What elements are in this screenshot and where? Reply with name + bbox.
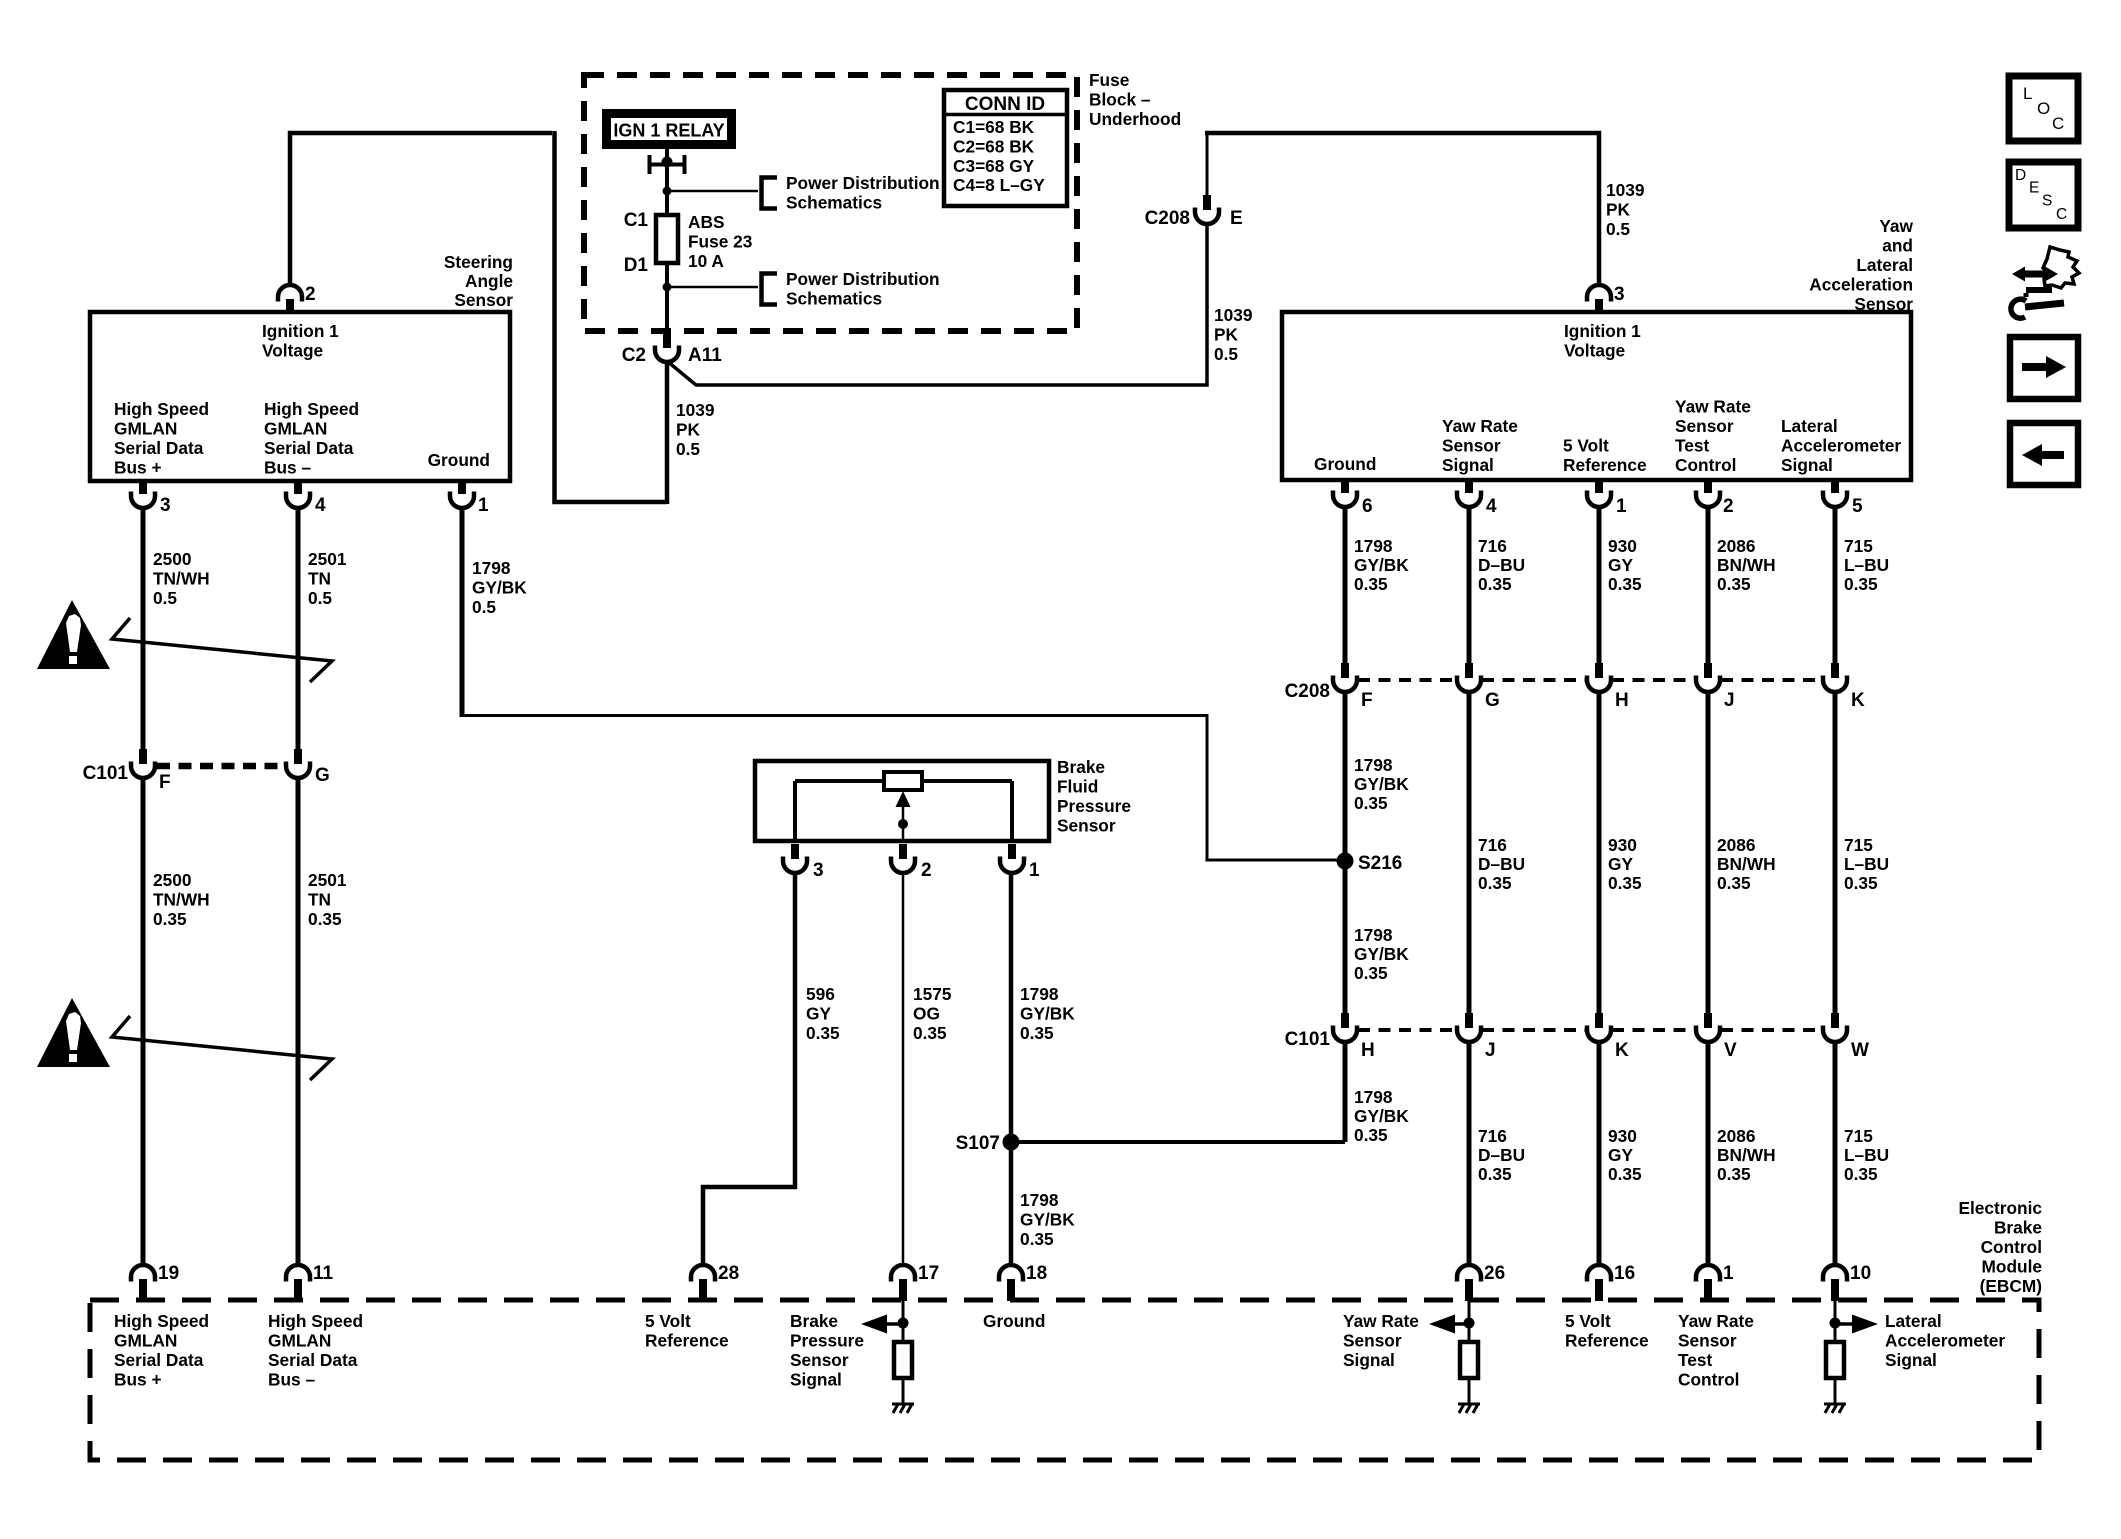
svg-text:5: 5 [1852, 496, 1863, 517]
svg-text:S107: S107 [956, 1133, 1000, 1154]
wire resistor to ground pin 17 [902, 1378, 905, 1404]
warning triangle upper [37, 600, 110, 669]
svg-text:0.35: 0.35 [1478, 1164, 1512, 1184]
svg-text:C101: C101 [83, 763, 129, 784]
svg-text:Control: Control [1981, 1237, 2042, 1257]
svg-text:C101: C101 [1285, 1029, 1331, 1050]
svg-text:Ground: Ground [1314, 454, 1376, 474]
svg-text:PK: PK [676, 420, 701, 440]
svg-text:930: 930 [1608, 1126, 1637, 1146]
steering sensor pin 1 [450, 479, 474, 508]
svg-text:5 Volt: 5 Volt [1563, 436, 1609, 456]
svg-text:C3=68 GY: C3=68 GY [953, 156, 1035, 176]
junction pin 10 internal [1830, 1318, 1841, 1329]
svg-text:TN/WH: TN/WH [153, 569, 210, 589]
svg-text:0.5: 0.5 [308, 588, 332, 608]
svg-text:Pressure: Pressure [790, 1331, 864, 1351]
EBCM internal wire pin 10 [1834, 1301, 1837, 1342]
dashed link C101 H-J [1358, 1028, 1456, 1032]
svg-text:2501: 2501 [308, 870, 347, 890]
svg-text:1798: 1798 [1354, 536, 1393, 556]
svg-text:5 Volt: 5 Volt [645, 1311, 691, 1331]
wire 2086 BN/WH 0.35 upper segment [1706, 507, 1711, 663]
svg-text:1: 1 [1616, 496, 1627, 517]
svg-text:J: J [1724, 690, 1735, 711]
connector C101 pin G [286, 749, 310, 778]
svg-text:2501: 2501 [308, 549, 347, 569]
wire 930 GY 0.35 middle segment [1597, 692, 1602, 1013]
wire branch to power distribution lower [667, 286, 758, 289]
svg-text:2: 2 [1723, 496, 1734, 517]
wire 930 GY 0.35 lower segment [1597, 1042, 1602, 1265]
svg-text:18: 18 [1026, 1263, 1047, 1284]
svg-text:High Speed: High Speed [114, 399, 209, 419]
connector C208 pin G [1457, 663, 1481, 692]
wire 2501 TN lower segment [296, 778, 301, 1265]
svg-text:H: H [1615, 690, 1629, 711]
EBCM pin 28 [691, 1265, 715, 1301]
svg-text:2500: 2500 [153, 549, 191, 569]
svg-text:L–BU: L–BU [1844, 854, 1889, 874]
svg-text:0.35: 0.35 [913, 1023, 947, 1043]
svg-text:930: 930 [1608, 536, 1637, 556]
EBCM pin 17 [891, 1265, 915, 1301]
svg-text:GY/BK: GY/BK [1354, 555, 1409, 575]
connector C101 pin J [1457, 1013, 1481, 1042]
svg-text:3: 3 [813, 860, 824, 881]
wire 930 GY 0.35 upper segment [1597, 507, 1602, 663]
svg-text:Fluid: Fluid [1057, 777, 1098, 797]
svg-text:0.5: 0.5 [1606, 219, 1630, 239]
dashed link C101 K-V [1612, 1028, 1695, 1032]
svg-text:G: G [315, 765, 330, 786]
resistor EBCM pin 17 [894, 1342, 912, 1378]
svg-text:Serial Data: Serial Data [114, 1350, 204, 1370]
svg-text:0.35: 0.35 [1844, 574, 1878, 594]
svg-text:Sensor: Sensor [1343, 1331, 1402, 1351]
svg-text:IGN 1 RELAY: IGN 1 RELAY [613, 121, 724, 141]
wire 1798 GY/BK 0.5 to S216 [460, 716, 1346, 861]
svg-text:E: E [1230, 208, 1243, 229]
svg-text:PK: PK [1214, 325, 1239, 345]
svg-text:C208: C208 [1145, 208, 1190, 229]
svg-text:0.35: 0.35 [1608, 1164, 1642, 1184]
svg-text:GY/BK: GY/BK [1354, 774, 1409, 794]
svg-text:0.35: 0.35 [1717, 1164, 1751, 1184]
svg-text:0.35: 0.35 [806, 1023, 840, 1043]
pressure sensor internal element [795, 772, 1012, 841]
dashed link C208 J-K [1721, 678, 1822, 682]
wire branch to power distribution upper [667, 190, 758, 193]
junction pin 26 internal [1464, 1318, 1475, 1329]
svg-text:0.35: 0.35 [1020, 1229, 1054, 1249]
splice S216 [1337, 853, 1354, 870]
wire relay output vertical [665, 149, 669, 333]
svg-text:596: 596 [806, 984, 835, 1004]
yaw sensor pin 3 [1587, 285, 1611, 314]
icon back arrow box [2010, 423, 2078, 485]
ground EBCM pin 26 [1458, 1404, 1480, 1413]
svg-text:Control: Control [1675, 455, 1736, 475]
svg-text:Schematics: Schematics [786, 193, 882, 213]
wire S107 to C101 H [1011, 1140, 1345, 1144]
svg-text:GMLAN: GMLAN [268, 1331, 331, 1351]
steering angle sensor box [90, 312, 510, 481]
svg-text:Brake: Brake [790, 1311, 838, 1331]
wire 2500 TN/WH lower segment [141, 778, 146, 1265]
svg-text:TN/WH: TN/WH [153, 890, 210, 910]
svg-text:716: 716 [1478, 536, 1507, 556]
svg-text:L–BU: L–BU [1844, 555, 1889, 575]
svg-text:Signal: Signal [1343, 1350, 1395, 1370]
brake sensor pin 1 [1000, 844, 1024, 873]
dashed link C101 F-G [157, 763, 284, 770]
svg-text:TN: TN [308, 569, 331, 589]
svg-text:Signal: Signal [790, 1370, 842, 1390]
svg-text:Sensor: Sensor [1442, 436, 1501, 456]
svg-text:Voltage: Voltage [1564, 341, 1626, 361]
svg-text:High Speed: High Speed [264, 399, 359, 419]
svg-text:17: 17 [918, 1263, 939, 1284]
svg-text:0.5: 0.5 [1214, 344, 1238, 364]
svg-text:F: F [1361, 690, 1373, 711]
svg-text:Steering: Steering [444, 252, 513, 272]
svg-text:TN: TN [308, 890, 331, 910]
dashed link C101 V-W [1721, 1028, 1822, 1032]
note flash lower [112, 1016, 332, 1080]
svg-text:Lateral: Lateral [1885, 1311, 1942, 1331]
wire 1798 GY/BK 0.35 middle segment [1343, 692, 1348, 1013]
wire 1798 GY/BK 0.5 vertical [460, 508, 465, 716]
svg-text:0.35: 0.35 [1608, 873, 1642, 893]
svg-text:10: 10 [1850, 1263, 1871, 1284]
svg-text:Fuse: Fuse [1089, 70, 1130, 90]
EBCM pin 19 [131, 1265, 155, 1301]
svg-text:6: 6 [1362, 496, 1373, 517]
svg-text:Brake: Brake [1057, 757, 1105, 777]
arrow lateral accelerometer signal [1835, 1315, 1878, 1334]
wire 2086 BN/WH 0.35 middle segment [1706, 692, 1711, 1013]
svg-text:GY/BK: GY/BK [472, 578, 527, 598]
svg-text:2086: 2086 [1717, 835, 1755, 855]
ground EBCM pin 17 [892, 1404, 914, 1413]
svg-text:H: H [1361, 1040, 1375, 1061]
wire 1798 GY/BK 0.35 from brake pin 1 [1009, 873, 1014, 1265]
svg-text:1798: 1798 [1354, 755, 1393, 775]
svg-text:0.35: 0.35 [1844, 1164, 1878, 1184]
brake fluid pressure sensor box [755, 761, 1049, 841]
connector C208 pin E [1195, 195, 1219, 224]
svg-text:ABS: ABS [688, 212, 725, 232]
wire 716 D–BU 0.35 lower segment [1467, 1042, 1472, 1265]
svg-text:11: 11 [313, 1263, 334, 1284]
off-page bracket upper [762, 178, 778, 209]
svg-text:Sensor: Sensor [454, 290, 513, 310]
yaw sensor pin 2 [1696, 478, 1720, 507]
icon wrench and arrows [2011, 247, 2079, 318]
svg-text:Lateral: Lateral [1856, 255, 1913, 275]
wire 716 D–BU 0.35 upper segment [1467, 507, 1472, 663]
svg-text:F: F [159, 772, 171, 793]
svg-text:1575: 1575 [913, 984, 952, 1004]
dashed link C208 F-G [1358, 678, 1456, 682]
svg-text:1798: 1798 [472, 558, 511, 578]
wire 1798 GY/BK 0.35 upper segment [1343, 507, 1348, 663]
svg-text:GY: GY [1608, 555, 1633, 575]
svg-text:1: 1 [1723, 1263, 1734, 1284]
svg-text:Reference: Reference [1563, 455, 1647, 475]
svg-text:Pressure: Pressure [1057, 796, 1131, 816]
svg-text:GMLAN: GMLAN [114, 419, 177, 439]
svg-text:Yaw: Yaw [1879, 216, 1913, 236]
svg-text:Block –: Block – [1089, 90, 1151, 110]
warning triangle lower [37, 998, 110, 1067]
svg-text:Sensor: Sensor [790, 1350, 849, 1370]
svg-text:G: G [1485, 690, 1500, 711]
svg-text:S216: S216 [1358, 853, 1402, 874]
svg-text:OG: OG [913, 1004, 940, 1024]
svg-text:PK: PK [1606, 200, 1631, 220]
svg-text:Underhood: Underhood [1089, 109, 1181, 129]
svg-text:1798: 1798 [1354, 1087, 1393, 1107]
svg-text:C1: C1 [624, 210, 649, 231]
steering sensor pin 2 [278, 285, 302, 314]
connector C101 pin F [131, 749, 155, 778]
svg-text:1039: 1039 [676, 400, 714, 420]
svg-text:Bus +: Bus + [114, 1370, 162, 1390]
svg-text:Sensor: Sensor [1675, 416, 1734, 436]
svg-text:3: 3 [160, 495, 171, 516]
svg-text:Electronic: Electronic [1958, 1198, 2042, 1218]
svg-text:1: 1 [1029, 860, 1040, 881]
wire 1039 PK from C208 E to yaw sensor pin 3 [1206, 133, 1209, 195]
svg-text:BN/WH: BN/WH [1717, 1145, 1776, 1165]
svg-text:0.35: 0.35 [1354, 574, 1388, 594]
svg-text:1039: 1039 [1214, 305, 1252, 325]
svg-text:Sensor: Sensor [1854, 294, 1913, 314]
svg-text:715: 715 [1844, 1126, 1873, 1146]
svg-text:S: S [2042, 193, 2052, 210]
svg-text:Lateral: Lateral [1781, 416, 1838, 436]
steering sensor pin 4 [286, 479, 310, 508]
icon forward arrow box [2010, 337, 2078, 399]
connector C101 pin K [1587, 1013, 1611, 1042]
svg-text:0.35: 0.35 [1354, 1125, 1388, 1145]
svg-text:Sensor: Sensor [1678, 1331, 1737, 1351]
svg-text:Reference: Reference [1565, 1331, 1649, 1351]
svg-text:4: 4 [1486, 496, 1497, 517]
svg-text:0.35: 0.35 [1478, 574, 1512, 594]
brake sensor pin 3 [783, 844, 807, 873]
connector C101 pin W [1823, 1013, 1847, 1042]
wire 596 GY 0.35 [703, 873, 795, 1265]
svg-text:C208: C208 [1285, 681, 1330, 702]
EBCM pin 1 [1696, 1265, 1720, 1301]
svg-text:Reference: Reference [645, 1331, 729, 1351]
svg-text:2086: 2086 [1717, 536, 1755, 556]
svg-text:Yaw Rate: Yaw Rate [1343, 1311, 1419, 1331]
svg-text:and: and [1882, 236, 1913, 256]
svg-text:1: 1 [478, 495, 489, 516]
svg-text:Accelerometer: Accelerometer [1781, 436, 1901, 456]
arrow brake pressure sensor signal [861, 1315, 903, 1334]
svg-text:19: 19 [158, 1263, 179, 1284]
wire 716 D–BU 0.35 middle segment [1467, 692, 1472, 1013]
svg-text:0.5: 0.5 [676, 439, 700, 459]
connector C101 pin H [1333, 1013, 1357, 1042]
svg-text:28: 28 [718, 1263, 739, 1284]
svg-text:High Speed: High Speed [114, 1311, 209, 1331]
connector C208 pin K [1823, 663, 1847, 692]
svg-text:2: 2 [305, 284, 316, 305]
EBCM internal wire pin 26 [1468, 1301, 1471, 1342]
svg-text:Schematics: Schematics [786, 289, 882, 309]
svg-text:16: 16 [1614, 1263, 1635, 1284]
wire 2501 TN upper segment [296, 508, 301, 749]
EBCM pin 11 [286, 1265, 310, 1301]
connector C101 pin V [1696, 1013, 1720, 1042]
note flash upper [112, 618, 332, 682]
svg-text:C2: C2 [622, 345, 646, 366]
svg-text:Ground: Ground [983, 1311, 1045, 1331]
junction relay feed upper [663, 187, 672, 196]
svg-text:10 A: 10 A [688, 251, 724, 271]
connector C208 pin H [1587, 663, 1611, 692]
svg-text:GY: GY [1608, 1145, 1633, 1165]
svg-text:930: 930 [1608, 835, 1637, 855]
svg-text:0.35: 0.35 [1354, 963, 1388, 983]
svg-text:Serial Data: Serial Data [264, 438, 354, 458]
svg-text:D–BU: D–BU [1478, 854, 1525, 874]
CONN ID table [944, 90, 1067, 206]
wire 2086 BN/WH 0.35 lower segment [1706, 1042, 1711, 1265]
svg-text:(EBCM): (EBCM) [1980, 1276, 2042, 1296]
svg-text:2500: 2500 [153, 870, 191, 890]
EBCM pin 16 [1587, 1265, 1611, 1301]
svg-text:GY/BK: GY/BK [1020, 1004, 1075, 1024]
svg-text:Test: Test [1675, 436, 1709, 456]
svg-text:26: 26 [1484, 1263, 1505, 1284]
relay contact [648, 155, 686, 174]
svg-text:O: O [2037, 99, 2050, 118]
svg-text:GY/BK: GY/BK [1020, 1210, 1075, 1230]
svg-text:GY: GY [806, 1004, 831, 1024]
EBCM pin 26 [1457, 1265, 1481, 1301]
svg-text:GY/BK: GY/BK [1354, 944, 1409, 964]
icon LOC box [2009, 76, 2078, 141]
svg-text:Yaw Rate: Yaw Rate [1675, 397, 1751, 417]
svg-text:GY/BK: GY/BK [1354, 1106, 1409, 1126]
junction pin 17 internal [898, 1318, 909, 1329]
svg-text:Signal: Signal [1885, 1350, 1937, 1370]
svg-text:C: C [2052, 114, 2064, 133]
svg-text:Signal: Signal [1442, 455, 1494, 475]
svg-text:2086: 2086 [1717, 1126, 1755, 1146]
EBCM pin 10 [1823, 1265, 1847, 1301]
svg-text:J: J [1485, 1040, 1496, 1061]
svg-text:V: V [1724, 1040, 1737, 1061]
svg-text:0.35: 0.35 [1608, 574, 1642, 594]
svg-text:0.35: 0.35 [1717, 574, 1751, 594]
arrow yaw rate sensor signal [1429, 1315, 1469, 1334]
svg-text:Accelerometer: Accelerometer [1885, 1331, 2005, 1351]
dashed link C101 J-K [1482, 1028, 1586, 1032]
wire 1798 GY/BK 0.35 from C101 H [1343, 1042, 1348, 1142]
svg-text:1798: 1798 [1020, 1190, 1059, 1210]
wire resistor to ground pin 26 [1468, 1378, 1471, 1404]
svg-text:D1: D1 [624, 255, 649, 276]
svg-text:Angle: Angle [465, 271, 513, 291]
junction relay feed lower [663, 283, 672, 292]
svg-text:C: C [2056, 206, 2067, 223]
fuse block - underhood dashed enclosure [584, 75, 1077, 331]
svg-text:0.35: 0.35 [308, 909, 342, 929]
svg-text:Module: Module [1982, 1257, 2043, 1277]
svg-text:K: K [1851, 690, 1865, 711]
svg-text:0.35: 0.35 [1478, 873, 1512, 893]
svg-text:Fuse 23: Fuse 23 [688, 232, 752, 252]
svg-text:3: 3 [1614, 284, 1625, 305]
relay IGN 1 RELAY label box [602, 109, 736, 149]
yaw sensor pin 1 [1587, 478, 1611, 507]
svg-text:Brake: Brake [1994, 1218, 2042, 1238]
EBCM internal wire pin 17 [902, 1301, 905, 1342]
svg-text:2: 2 [921, 860, 932, 881]
svg-text:W: W [1851, 1040, 1869, 1061]
wire 715 L–BU 0.35 upper segment [1833, 507, 1838, 663]
svg-text:Yaw Rate: Yaw Rate [1678, 1311, 1754, 1331]
svg-text:C1=68 BK: C1=68 BK [953, 117, 1035, 137]
svg-text:D–BU: D–BU [1478, 555, 1525, 575]
wire 715 L–BU 0.35 middle segment [1833, 692, 1838, 1013]
steering sensor pin 3 [131, 479, 155, 508]
svg-text:1798: 1798 [1020, 984, 1059, 1004]
fuse ABS Fuse 23 10A [656, 215, 678, 263]
svg-text:K: K [1615, 1040, 1629, 1061]
svg-text:1039: 1039 [1606, 180, 1644, 200]
svg-text:L–BU: L–BU [1844, 1145, 1889, 1165]
icon DESC box [2009, 162, 2078, 228]
svg-text:5 Volt: 5 Volt [1565, 1311, 1611, 1331]
svg-text:Ground: Ground [428, 450, 490, 470]
svg-text:Power Distribution: Power Distribution [786, 173, 940, 193]
splice S107 [1003, 1134, 1020, 1151]
svg-text:Power Distribution: Power Distribution [786, 269, 940, 289]
svg-text:Test: Test [1678, 1350, 1712, 1370]
svg-text:Bus –: Bus – [268, 1370, 315, 1390]
svg-text:E: E [2029, 180, 2039, 197]
svg-text:BN/WH: BN/WH [1717, 555, 1776, 575]
svg-text:D–BU: D–BU [1478, 1145, 1525, 1165]
svg-text:0.35: 0.35 [1020, 1023, 1054, 1043]
svg-text:0.5: 0.5 [472, 597, 496, 617]
connector C2 pin A11 [655, 333, 679, 362]
svg-text:Bus +: Bus + [114, 458, 162, 478]
svg-text:GMLAN: GMLAN [114, 1331, 177, 1351]
ground EBCM pin 10 [1824, 1404, 1846, 1413]
svg-text:Serial Data: Serial Data [268, 1350, 358, 1370]
svg-text:Bus –: Bus – [264, 458, 311, 478]
connector C208 pin J [1696, 663, 1720, 692]
svg-text:715: 715 [1844, 835, 1873, 855]
dashed link C208 G-H [1482, 678, 1586, 682]
svg-text:C2=68 BK: C2=68 BK [953, 136, 1035, 156]
yaw and lateral acceleration sensor box [1282, 312, 1911, 480]
svg-text:716: 716 [1478, 835, 1507, 855]
wire resistor to ground pin 10 [1834, 1378, 1837, 1404]
svg-text:0.35: 0.35 [1717, 873, 1751, 893]
svg-text:Ignition 1: Ignition 1 [262, 321, 339, 341]
